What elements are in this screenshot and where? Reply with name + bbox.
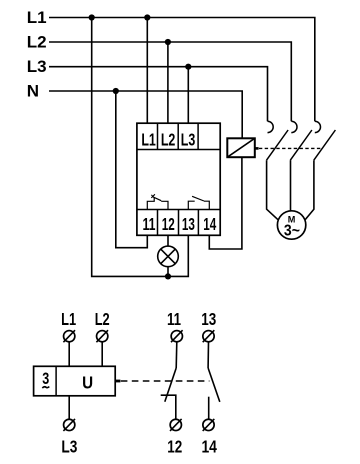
svg-text:L2: L2 <box>95 309 110 329</box>
svg-text:L1: L1 <box>27 8 47 27</box>
contact 13-14 upper lead <box>207 342 209 368</box>
junction dot L3 <box>185 64 191 70</box>
svg-text:L3: L3 <box>27 57 47 76</box>
junction dot lamp/bottom rail <box>165 273 171 279</box>
lamp H1 <box>158 246 179 267</box>
contact 11-12 upper lead <box>175 342 178 368</box>
wire lamp H1 to bottom rail <box>167 267 169 277</box>
svg-text:L2: L2 <box>161 129 176 149</box>
terminal L1 screw <box>63 330 75 342</box>
svg-text:N: N <box>27 82 39 101</box>
coil K1 <box>227 138 255 157</box>
svg-text:L2: L2 <box>27 33 47 52</box>
svg-text:3: 3 <box>42 370 49 388</box>
mechanical link dashed K1 <box>259 147 322 149</box>
terminal L2 screw <box>96 330 108 342</box>
wire L3 bus to contact K1.1 <box>49 67 268 122</box>
contact K1.2 blade <box>290 130 312 160</box>
svg-text:L3: L3 <box>61 436 77 456</box>
actuation arrow on contact 11-12 <box>151 194 155 198</box>
motor M1 <box>277 211 305 240</box>
wire L1 to terminal L1 of U1 <box>146 18 148 124</box>
wire terminal 14 to coil K1 <box>209 157 242 249</box>
label 3-phase denominator (tilde) <box>42 387 49 388</box>
contact 11-12 blade (NC) <box>165 368 176 402</box>
wire L2 to terminal L2 of U1 <box>167 42 169 123</box>
terminal strip bottom of U1 <box>137 210 220 236</box>
svg-text:12: 12 <box>167 436 182 456</box>
terminal 11 screw <box>171 330 183 342</box>
svg-text:13: 13 <box>201 309 216 329</box>
contact 13-14 blade (NO) <box>208 368 220 402</box>
wire contact K1.1 to motor <box>267 160 280 221</box>
svg-text:L3: L3 <box>181 129 196 149</box>
relay contact 11-12 (NC) inside U1 <box>147 197 168 209</box>
junction dot L1 left <box>89 14 95 20</box>
contact 11-12 stop bar <box>161 395 176 419</box>
wire L2 bus to contact K1.2 <box>49 42 291 121</box>
svg-text:13: 13 <box>182 214 195 234</box>
contact K1.2 fixed arc <box>291 121 297 132</box>
svg-text:L1: L1 <box>61 309 76 329</box>
mechanical link dashed U1 to contacts <box>121 380 210 382</box>
terminal L3 screw <box>63 419 75 431</box>
contact 13-14 lower lead <box>208 397 210 420</box>
svg-text:11: 11 <box>143 214 156 234</box>
wire L3 to terminal L3 of U1 <box>187 67 189 124</box>
wire contact K1.3 to motor <box>305 160 314 220</box>
terminal 13 screw <box>203 330 215 342</box>
contact K1.1 blade <box>267 130 289 160</box>
actuator stub of U1 <box>116 380 121 383</box>
wire terminal L1 to U1 <box>68 342 70 366</box>
junction dot L1 right <box>144 14 150 20</box>
wire contact K1.2 to motor <box>290 160 292 211</box>
wire L1 bus to contact K1.3 <box>49 18 315 122</box>
wire N to terminal 11 <box>116 91 148 248</box>
relay U1 block <box>34 366 116 396</box>
junction dot L2 <box>165 39 171 45</box>
wire terminal 12 to lamp H1 <box>167 235 169 246</box>
svg-text:U: U <box>82 372 93 392</box>
svg-text:12: 12 <box>162 214 175 234</box>
svg-text:14: 14 <box>201 436 217 456</box>
wire L1 down to bottom rail and terminal 13 <box>92 18 189 277</box>
relay contact 13-14 (NO) inside U1 <box>188 196 209 209</box>
wire terminal L2 to U1 <box>101 342 103 366</box>
terminal 12 screw <box>170 419 182 431</box>
relay U1 body <box>137 123 220 235</box>
actuator stub of coil K1 <box>255 147 259 150</box>
svg-text:11: 11 <box>167 309 181 329</box>
wire N bus to coil K1 <box>49 91 242 138</box>
contact K1.1 fixed arc <box>268 121 274 132</box>
contact K1.3 blade <box>314 130 336 160</box>
svg-text:14: 14 <box>203 214 216 234</box>
contact K1.3 fixed arc <box>315 121 321 132</box>
junction dot N <box>113 88 119 94</box>
svg-text:L1: L1 <box>141 129 156 149</box>
terminal strip top of U1 <box>137 123 220 149</box>
wire U1 to terminal L3 <box>68 396 70 420</box>
svg-text:3~: 3~ <box>284 223 300 240</box>
terminal 14 screw <box>203 419 215 431</box>
